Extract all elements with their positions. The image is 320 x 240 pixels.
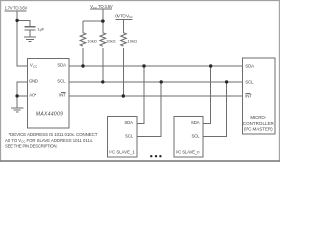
svg-text:1µF: 1µF bbox=[37, 26, 45, 31]
svg-text:10kΩ: 10kΩ bbox=[128, 38, 137, 43]
svg-text:SDA: SDA bbox=[191, 120, 200, 125]
svg-text:I²C SLAVE_n: I²C SLAVE_n bbox=[176, 149, 200, 154]
svg-text:1.7V TO 3.6V: 1.7V TO 3.6V bbox=[5, 6, 28, 11]
svg-text:10kΩ: 10kΩ bbox=[106, 38, 115, 43]
svg-text:CONTROLLER: CONTROLLER bbox=[243, 121, 275, 126]
svg-text:SDA: SDA bbox=[57, 62, 66, 67]
svg-text:SEE THE PIN DESCRIPTION.: SEE THE PIN DESCRIPTION. bbox=[5, 143, 58, 148]
svg-text:I²C SLAVE_1: I²C SLAVE_1 bbox=[109, 149, 135, 154]
svg-text:INT: INT bbox=[59, 93, 66, 98]
svg-text:(I²C MASTER): (I²C MASTER) bbox=[244, 127, 273, 132]
svg-text:SCL: SCL bbox=[192, 133, 201, 138]
svg-text:0V TO VCC: 0V TO VCC bbox=[115, 13, 133, 19]
svg-text:SDA: SDA bbox=[245, 64, 254, 69]
svg-text:MAX44009: MAX44009 bbox=[36, 112, 63, 118]
svg-text:GND: GND bbox=[29, 79, 38, 84]
svg-text:*DEVICE ADDRESS IS 1011 010x.: *DEVICE ADDRESS IS 1011 010x. CONNECT bbox=[9, 132, 98, 137]
svg-text:10kΩ: 10kΩ bbox=[87, 38, 96, 43]
svg-text:SCL: SCL bbox=[125, 133, 134, 138]
svg-text:INT: INT bbox=[245, 94, 252, 99]
svg-text:SCL: SCL bbox=[245, 80, 254, 85]
svg-text:VCC: VCC bbox=[30, 63, 38, 69]
svg-text:A0*: A0* bbox=[29, 93, 36, 98]
svg-text:MICRO-: MICRO- bbox=[250, 115, 266, 120]
svg-text:SDA: SDA bbox=[124, 120, 133, 125]
svg-text:SCL: SCL bbox=[57, 78, 66, 83]
